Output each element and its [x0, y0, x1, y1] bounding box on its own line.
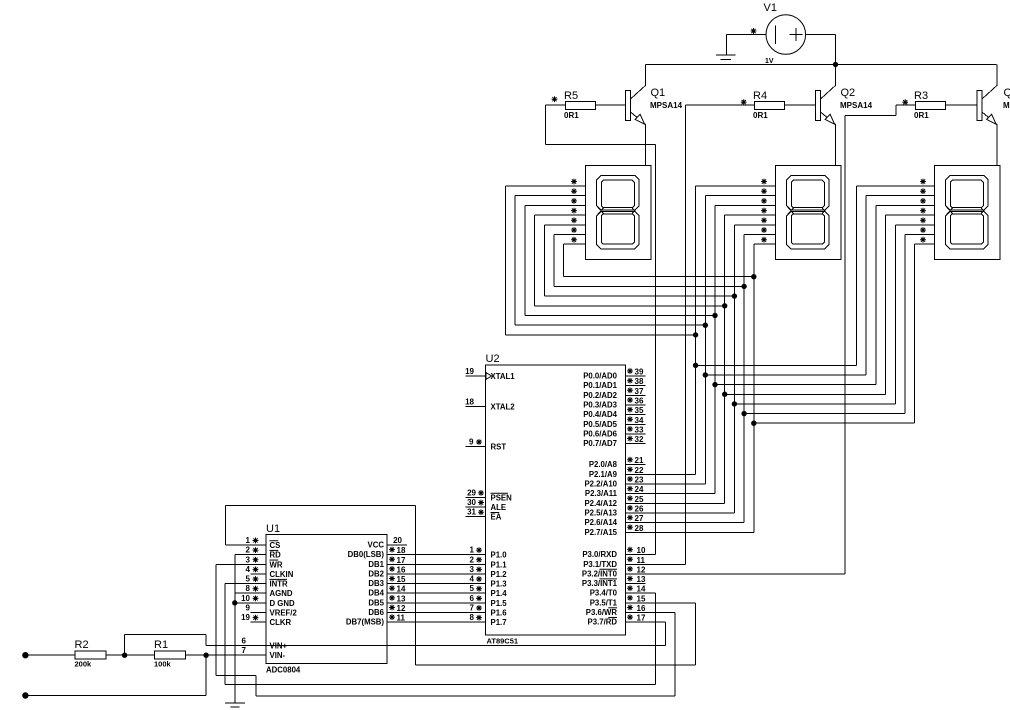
svg-text:12: 12	[637, 565, 646, 574]
svg-text:ADC0804: ADC0804	[266, 666, 301, 675]
svg-text:1V: 1V	[765, 58, 774, 65]
svg-text:P3.1/TXD: P3.1/TXD	[583, 560, 617, 569]
svg-text:P3.3/INT1: P3.3/INT1	[582, 579, 618, 588]
svg-text:32: 32	[635, 435, 644, 444]
svg-text:EA: EA	[491, 513, 502, 522]
svg-text:22: 22	[635, 466, 644, 475]
svg-text:26: 26	[635, 504, 644, 513]
svg-text:DB6: DB6	[368, 608, 384, 617]
svg-text:Q3: Q3	[1004, 87, 1010, 99]
svg-text:P2.6/A14: P2.6/A14	[584, 518, 617, 527]
svg-text:VCC: VCC	[368, 540, 385, 549]
svg-text:RD: RD	[270, 551, 282, 560]
svg-text:DB2: DB2	[368, 569, 384, 578]
svg-text:U1: U1	[266, 523, 280, 535]
svg-text:P2.4/A12: P2.4/A12	[584, 499, 617, 508]
svg-text:P2.3/A11: P2.3/A11	[585, 489, 618, 498]
svg-text:4: 4	[246, 565, 251, 574]
svg-text:2: 2	[246, 546, 251, 555]
svg-text:P1.3: P1.3	[491, 580, 508, 589]
svg-text:31: 31	[467, 508, 476, 517]
svg-text:15: 15	[397, 575, 406, 584]
svg-text:10: 10	[241, 594, 250, 603]
svg-text:4: 4	[470, 575, 475, 584]
svg-text:INTR: INTR	[270, 580, 289, 589]
svg-text:XTAL1: XTAL1	[491, 372, 516, 381]
svg-text:PSEN: PSEN	[491, 493, 513, 502]
svg-text:AGND: AGND	[270, 589, 293, 598]
svg-text:7: 7	[470, 604, 475, 613]
svg-text:P0.7/AD7: P0.7/AD7	[583, 439, 617, 448]
svg-text:P2.0/A8: P2.0/A8	[589, 460, 618, 469]
svg-text:VIN-: VIN-	[270, 651, 286, 660]
svg-text:MPSA14: MPSA14	[840, 101, 873, 110]
svg-text:29: 29	[467, 488, 476, 497]
svg-text:34: 34	[635, 416, 644, 425]
svg-text:U2: U2	[486, 353, 500, 365]
svg-text:2: 2	[470, 555, 475, 564]
svg-text:XTAL2: XTAL2	[491, 403, 516, 412]
svg-text:11: 11	[397, 614, 406, 623]
svg-text:P0.1/AD1: P0.1/AD1	[583, 381, 617, 390]
svg-text:P3.6/WR: P3.6/WR	[586, 608, 618, 617]
svg-text:23: 23	[635, 476, 644, 485]
svg-text:1: 1	[246, 536, 251, 545]
svg-text:18: 18	[397, 546, 406, 555]
svg-text:R3: R3	[914, 90, 928, 102]
svg-text:3: 3	[246, 555, 251, 564]
svg-text:0R1: 0R1	[753, 111, 768, 120]
svg-text:P3.7/RD: P3.7/RD	[588, 618, 618, 627]
svg-text:15: 15	[637, 594, 646, 603]
svg-text:100k: 100k	[154, 660, 172, 669]
svg-text:P1.4: P1.4	[491, 589, 508, 598]
svg-text:0R1: 0R1	[564, 111, 579, 120]
svg-text:6: 6	[470, 594, 475, 603]
svg-text:R5: R5	[564, 90, 578, 102]
svg-text:17: 17	[637, 614, 646, 623]
svg-text:5: 5	[246, 575, 251, 584]
svg-text:DB7(MSB): DB7(MSB)	[346, 618, 385, 627]
svg-text:P0.5/AD5: P0.5/AD5	[583, 420, 617, 429]
svg-text:P2.1/A9: P2.1/A9	[589, 470, 618, 479]
svg-text:8: 8	[246, 584, 251, 593]
svg-text:5: 5	[470, 584, 475, 593]
svg-text:0R1: 0R1	[914, 111, 929, 120]
svg-text:14: 14	[637, 585, 646, 594]
svg-text:MPSA14: MPSA14	[650, 101, 683, 110]
svg-text:13: 13	[637, 575, 646, 584]
svg-text:6: 6	[242, 636, 247, 645]
svg-text:19: 19	[241, 613, 250, 622]
svg-text:16: 16	[397, 565, 406, 574]
svg-text:DB5: DB5	[368, 598, 384, 607]
svg-text:P1.5: P1.5	[491, 599, 508, 608]
svg-text:R1: R1	[154, 639, 168, 651]
svg-text:P2.5/A13: P2.5/A13	[584, 508, 617, 517]
svg-text:25: 25	[635, 495, 644, 504]
svg-text:P3.5/T1: P3.5/T1	[590, 598, 618, 607]
svg-text:200k: 200k	[75, 660, 93, 669]
svg-text:P3.4/T0: P3.4/T0	[590, 589, 618, 598]
svg-text:P1.2: P1.2	[491, 570, 508, 579]
svg-text:28: 28	[635, 524, 644, 533]
svg-text:19: 19	[465, 367, 474, 376]
svg-text:MPSA14: MPSA14	[1003, 101, 1010, 110]
svg-text:30: 30	[467, 498, 476, 507]
svg-text:CLKR: CLKR	[270, 618, 292, 627]
svg-text:17: 17	[397, 556, 406, 565]
svg-text:DB1: DB1	[368, 560, 384, 569]
svg-text:18: 18	[465, 398, 474, 407]
svg-text:9: 9	[469, 438, 474, 447]
svg-text:DB4: DB4	[368, 589, 384, 598]
svg-text:7: 7	[242, 646, 247, 655]
svg-text:9: 9	[246, 604, 251, 613]
svg-text:ALE: ALE	[491, 503, 507, 512]
svg-text:3: 3	[470, 565, 475, 574]
svg-text:P3.2/INT0: P3.2/INT0	[582, 569, 618, 578]
svg-text:P0.2/AD2: P0.2/AD2	[583, 391, 617, 400]
svg-text:DB0(LSB): DB0(LSB)	[348, 550, 385, 559]
svg-text:P1.0: P1.0	[491, 551, 508, 560]
svg-text:35: 35	[635, 406, 644, 415]
svg-text:R4: R4	[753, 90, 767, 102]
svg-text:37: 37	[635, 387, 644, 396]
svg-text:Q1: Q1	[651, 87, 666, 99]
svg-text:13: 13	[397, 594, 406, 603]
svg-text:DB3: DB3	[368, 579, 384, 588]
svg-text:VIN+: VIN+	[270, 641, 288, 650]
svg-text:WR: WR	[270, 560, 283, 569]
svg-text:P0.6/AD6: P0.6/AD6	[583, 429, 617, 438]
svg-text:11: 11	[637, 556, 646, 565]
svg-text:P2.7/A15: P2.7/A15	[584, 528, 617, 537]
svg-text:RST: RST	[491, 443, 507, 452]
svg-text:P0.4/AD4: P0.4/AD4	[583, 410, 617, 419]
svg-text:39: 39	[635, 368, 644, 377]
svg-text:V1: V1	[764, 2, 777, 14]
svg-text:8: 8	[470, 613, 475, 622]
svg-text:P0.3/AD3: P0.3/AD3	[583, 400, 617, 409]
svg-text:1: 1	[470, 546, 475, 555]
svg-text:21: 21	[635, 456, 644, 465]
svg-text:P3.0/RXD: P3.0/RXD	[582, 550, 617, 559]
svg-text:38: 38	[635, 377, 644, 386]
svg-text:33: 33	[635, 425, 644, 434]
svg-text:16: 16	[637, 604, 646, 613]
svg-text:D GND: D GND	[270, 599, 295, 608]
svg-text:VREF/2: VREF/2	[270, 609, 298, 618]
svg-text:AT89C51: AT89C51	[487, 637, 519, 646]
svg-text:24: 24	[635, 485, 644, 494]
svg-text:P2.2/A10: P2.2/A10	[584, 480, 617, 489]
svg-text:27: 27	[635, 514, 644, 523]
svg-text:P1.7: P1.7	[491, 618, 507, 627]
svg-text:10: 10	[637, 546, 646, 555]
svg-text:R2: R2	[75, 639, 89, 651]
svg-text:12: 12	[397, 604, 406, 613]
svg-text:P0.0/AD0: P0.0/AD0	[583, 372, 617, 381]
svg-text:CS: CS	[270, 541, 281, 550]
svg-text:Q2: Q2	[841, 87, 856, 99]
svg-text:CLKIN: CLKIN	[270, 570, 294, 579]
svg-text:14: 14	[397, 585, 406, 594]
svg-text:20: 20	[393, 536, 402, 545]
svg-text:P1.1: P1.1	[491, 560, 508, 569]
svg-text:P1.6: P1.6	[491, 609, 508, 618]
svg-text:36: 36	[635, 396, 644, 405]
